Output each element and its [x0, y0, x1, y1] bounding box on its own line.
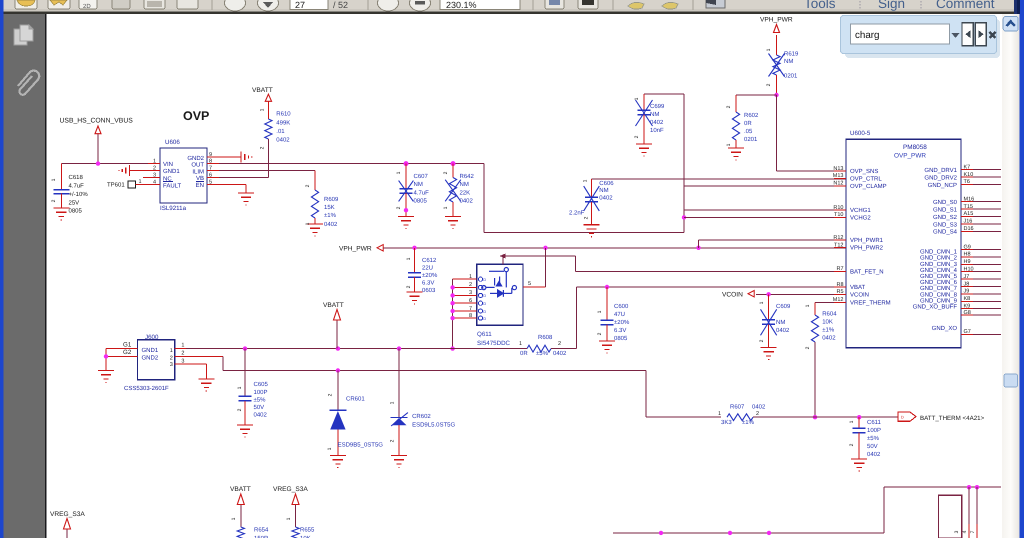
svg-text:1: 1: [443, 206, 449, 209]
svg-text:D: D: [483, 302, 486, 306]
svg-text:EN: EN: [196, 182, 204, 189]
svg-text:0402: 0402: [276, 137, 290, 144]
svg-text:0402: 0402: [650, 119, 664, 126]
svg-text:0402: 0402: [752, 404, 766, 411]
svg-text:BATT_THERM <4A21>: BATT_THERM <4A21>: [920, 415, 985, 422]
svg-text:1: 1: [519, 341, 522, 347]
svg-text:0402: 0402: [324, 221, 338, 228]
svg-text:VPH_PWR: VPH_PWR: [339, 246, 372, 253]
svg-text:0402: 0402: [254, 412, 268, 419]
svg-text:GND_CMN_2: GND_CMN_2: [920, 255, 958, 262]
svg-text:R642: R642: [460, 173, 475, 180]
svg-text:2: 2: [634, 135, 640, 138]
svg-text:VIN: VIN: [163, 161, 173, 168]
svg-text:R655: R655: [300, 527, 315, 534]
svg-text:2: 2: [597, 332, 603, 335]
svg-text:3: 3: [170, 362, 173, 368]
svg-text:2.2nF: 2.2nF: [569, 210, 585, 217]
svg-text:VPH_PWR: VPH_PWR: [760, 17, 793, 24]
svg-text:R609: R609: [324, 196, 339, 203]
svg-text:2: 2: [759, 339, 765, 342]
svg-text:1: 1: [286, 517, 292, 520]
svg-text:0402: 0402: [776, 327, 790, 334]
svg-text:1: 1: [759, 301, 765, 304]
svg-text:27: 27: [295, 0, 305, 10]
svg-text:230.1%: 230.1%: [446, 0, 477, 10]
svg-text:C609: C609: [776, 303, 791, 310]
svg-text:NM: NM: [460, 181, 469, 188]
svg-text:4.7uF: 4.7uF: [414, 189, 430, 196]
svg-text:C605: C605: [254, 381, 269, 388]
svg-text:GND_S4: GND_S4: [933, 229, 958, 236]
svg-text:2: 2: [558, 341, 561, 347]
svg-text:±20%: ±20%: [614, 319, 630, 326]
svg-text:Sign: Sign: [878, 0, 905, 11]
svg-text:G1: G1: [123, 342, 132, 349]
svg-text:GND_S3: GND_S3: [933, 221, 958, 228]
svg-text:0603: 0603: [422, 287, 436, 294]
svg-text:±1%: ±1%: [822, 327, 835, 334]
svg-text:R608: R608: [538, 334, 553, 341]
svg-text:R619: R619: [784, 51, 799, 58]
svg-text:0805: 0805: [414, 198, 428, 205]
svg-text:0805: 0805: [69, 208, 83, 215]
svg-text:1: 1: [849, 420, 855, 423]
svg-text:0201: 0201: [784, 73, 798, 80]
svg-text:±5%: ±5%: [254, 397, 267, 404]
svg-text:NM: NM: [414, 181, 423, 188]
svg-text:2: 2: [181, 350, 184, 356]
svg-text:ESD9B5_0ST5G: ESD9B5_0ST5G: [338, 442, 384, 449]
svg-text:2: 2: [726, 105, 732, 108]
svg-text:0201: 0201: [744, 136, 758, 143]
svg-text:GND1: GND1: [163, 168, 180, 175]
svg-text:GND2: GND2: [187, 155, 204, 162]
svg-text:GND_CMN_3: GND_CMN_3: [920, 261, 958, 268]
svg-text:C612: C612: [422, 257, 437, 264]
svg-text:±5%: ±5%: [867, 435, 880, 442]
svg-text:±20%: ±20%: [422, 272, 438, 279]
svg-text:OVP_SNS: OVP_SNS: [850, 168, 878, 175]
svg-text:OVP: OVP: [183, 109, 209, 123]
svg-text:BAT_FET_N: BAT_FET_N: [850, 269, 884, 276]
svg-text:3: 3: [954, 530, 960, 533]
svg-text:1: 1: [726, 143, 732, 146]
svg-text:1: 1: [634, 97, 640, 100]
svg-text:1: 1: [327, 447, 333, 450]
svg-text:2: 2: [170, 356, 173, 362]
svg-text:OVP_CLAMP: OVP_CLAMP: [850, 183, 887, 190]
svg-text:VCOIN: VCOIN: [722, 291, 743, 298]
svg-text:1: 1: [231, 517, 237, 520]
svg-text:OUT: OUT: [191, 162, 204, 169]
svg-text:22K: 22K: [460, 189, 471, 196]
svg-text:GND_S0: GND_S0: [933, 199, 958, 206]
svg-text:0805: 0805: [614, 335, 628, 342]
svg-text:R610: R610: [276, 111, 291, 118]
svg-text:3K3: 3K3: [721, 419, 732, 426]
svg-text:VBATT: VBATT: [323, 302, 344, 309]
svg-text:2: 2: [390, 439, 396, 442]
svg-text:VREF_THERM: VREF_THERM: [850, 300, 891, 307]
svg-text:SI5475DDC: SI5475DDC: [477, 340, 511, 347]
svg-text:VPH_PWR2: VPH_PWR2: [850, 245, 884, 252]
svg-text:R654: R654: [254, 527, 269, 534]
svg-text:2: 2: [396, 206, 402, 209]
svg-text:.05: .05: [744, 128, 753, 135]
svg-text:GND_S1: GND_S1: [933, 206, 958, 213]
svg-text:C607: C607: [414, 173, 429, 180]
svg-text:G8: G8: [964, 310, 971, 316]
svg-text:GND1: GND1: [142, 347, 159, 354]
svg-text:±1%: ±1%: [324, 212, 337, 219]
svg-text:D: D: [901, 416, 904, 420]
svg-text:D: D: [483, 310, 486, 314]
svg-text:VCOIN: VCOIN: [850, 292, 869, 299]
svg-text:GND_CMN_8: GND_CMN_8: [920, 291, 958, 298]
svg-text:OVP_CTRL: OVP_CTRL: [850, 176, 882, 183]
svg-text:15K: 15K: [324, 204, 335, 211]
svg-text:10nF: 10nF: [650, 127, 664, 134]
svg-text:CSS5303-2601F: CSS5303-2601F: [124, 385, 169, 392]
svg-text:GND_DRV1: GND_DRV1: [924, 167, 957, 174]
svg-text:1: 1: [406, 257, 412, 260]
svg-text:0402: 0402: [553, 350, 567, 357]
svg-text:GND_DRV2: GND_DRV2: [924, 174, 957, 181]
svg-text:VBAT: VBAT: [850, 284, 866, 291]
svg-text:50V: 50V: [867, 443, 878, 450]
svg-text:Q611: Q611: [477, 331, 492, 338]
svg-text:3: 3: [469, 290, 472, 296]
svg-text:OVP_PWR: OVP_PWR: [894, 153, 926, 160]
svg-text:25V: 25V: [69, 199, 80, 206]
svg-text:0402: 0402: [822, 335, 836, 342]
svg-text:2: 2: [443, 171, 449, 174]
svg-text:GND_CMN_5: GND_CMN_5: [920, 273, 958, 280]
svg-text:4.7uF: 4.7uF: [69, 183, 85, 190]
svg-text:5: 5: [528, 281, 531, 287]
svg-text:GND_NCP: GND_NCP: [928, 182, 957, 189]
svg-text:±5%: ±5%: [536, 350, 549, 357]
svg-text:6.3V: 6.3V: [422, 280, 434, 287]
svg-text:2: 2: [849, 443, 855, 446]
svg-text:VCHG1: VCHG1: [850, 207, 871, 214]
svg-text:1: 1: [390, 401, 396, 404]
svg-text:1: 1: [597, 310, 603, 313]
svg-text:1: 1: [170, 348, 173, 354]
svg-text:PM8058: PM8058: [903, 144, 927, 151]
svg-text:1: 1: [718, 411, 721, 417]
svg-text:50V: 50V: [254, 404, 265, 411]
svg-text:C606: C606: [599, 180, 614, 187]
svg-text:GND_XO_BUFF: GND_XO_BUFF: [913, 304, 958, 311]
svg-text:/ 52: / 52: [333, 0, 348, 10]
svg-text:R607: R607: [730, 404, 745, 411]
svg-text:VBATT: VBATT: [230, 486, 251, 493]
svg-text:2D: 2D: [83, 3, 91, 10]
svg-text:CR601: CR601: [346, 396, 365, 403]
svg-text:4: 4: [962, 530, 968, 533]
svg-text:NM: NM: [776, 319, 785, 326]
svg-text:C611: C611: [867, 419, 882, 426]
svg-text:VCHG2: VCHG2: [850, 215, 871, 222]
svg-text:charg: charg: [855, 30, 880, 41]
svg-text:2: 2: [237, 408, 243, 411]
svg-text:2: 2: [584, 216, 590, 219]
svg-text:2: 2: [469, 282, 472, 288]
svg-text:499K: 499K: [276, 120, 290, 127]
svg-text:U600-5: U600-5: [850, 130, 871, 137]
svg-text:1: 1: [582, 179, 588, 182]
svg-text:FAULT: FAULT: [163, 183, 182, 190]
svg-text:47U: 47U: [614, 311, 625, 318]
svg-text:.01: .01: [276, 128, 285, 135]
svg-text:0R: 0R: [520, 350, 528, 357]
svg-text:Comment: Comment: [936, 0, 995, 11]
svg-text:6.3V: 6.3V: [614, 327, 626, 334]
svg-text:+/-10%: +/-10%: [69, 191, 89, 198]
svg-text:VREG_S3A: VREG_S3A: [50, 511, 85, 518]
svg-text:J600: J600: [145, 334, 159, 341]
svg-text:8: 8: [469, 313, 472, 319]
svg-text:ILIM: ILIM: [192, 168, 204, 175]
svg-text:±1%: ±1%: [742, 419, 755, 426]
svg-text:0R: 0R: [744, 120, 752, 127]
svg-text:U606: U606: [165, 139, 180, 146]
svg-text:GND2: GND2: [142, 355, 159, 362]
svg-text:1: 1: [51, 178, 57, 181]
svg-text:NM: NM: [784, 58, 793, 65]
svg-text:2: 2: [766, 83, 772, 86]
svg-text:1: 1: [237, 386, 243, 389]
svg-text:2: 2: [51, 199, 57, 202]
svg-text:GND_CMN_4: GND_CMN_4: [920, 267, 958, 274]
svg-text:D: D: [483, 294, 486, 298]
svg-text:1: 1: [181, 343, 184, 349]
svg-text:VREG_S3A: VREG_S3A: [273, 486, 308, 493]
svg-text:2: 2: [805, 346, 811, 349]
svg-text:C618: C618: [69, 174, 84, 181]
svg-text:GND_S2: GND_S2: [933, 214, 958, 221]
svg-text:C600: C600: [614, 303, 629, 310]
svg-text:GND_CMN_9: GND_CMN_9: [920, 297, 958, 304]
svg-text:GND_CMN_6: GND_CMN_6: [920, 279, 958, 286]
svg-text:1: 1: [766, 48, 772, 51]
svg-text:D: D: [483, 317, 486, 321]
svg-text:7: 7: [970, 530, 976, 533]
svg-text:1: 1: [305, 222, 311, 225]
svg-text:1: 1: [805, 304, 811, 307]
svg-text:ISL9211a: ISL9211a: [160, 205, 187, 212]
svg-text:NM: NM: [599, 187, 608, 194]
svg-text:GND_CMN_1: GND_CMN_1: [920, 249, 958, 256]
svg-text:2: 2: [756, 411, 759, 417]
svg-text:USB_HS_CONN_VBUS: USB_HS_CONN_VBUS: [60, 118, 134, 125]
svg-text:100P: 100P: [254, 389, 268, 396]
svg-text:GND_CMN_7: GND_CMN_7: [920, 285, 958, 292]
svg-text:0402: 0402: [867, 451, 881, 458]
svg-text:Tools: Tools: [804, 0, 836, 11]
svg-text:VPH_PWR1: VPH_PWR1: [850, 237, 884, 244]
svg-text:0402: 0402: [460, 198, 474, 205]
svg-text:6: 6: [469, 298, 472, 304]
svg-text:0402: 0402: [599, 194, 613, 201]
svg-text:2: 2: [305, 184, 311, 187]
svg-text:2: 2: [328, 393, 334, 396]
svg-text:R604: R604: [822, 310, 837, 317]
svg-text:7: 7: [469, 306, 472, 312]
svg-text:2: 2: [259, 146, 265, 149]
svg-text:R602: R602: [744, 112, 759, 119]
svg-text:1: 1: [396, 171, 402, 174]
svg-text:NM: NM: [650, 111, 659, 118]
svg-text:1: 1: [139, 179, 142, 185]
svg-text:1: 1: [259, 108, 265, 111]
svg-text:TP601: TP601: [107, 181, 125, 188]
svg-text:C699: C699: [650, 103, 665, 110]
svg-text:100P: 100P: [867, 427, 881, 434]
svg-text:1: 1: [469, 274, 472, 280]
svg-text:GND_XO: GND_XO: [932, 325, 958, 332]
svg-text:G2: G2: [123, 349, 132, 356]
svg-text:10K: 10K: [822, 319, 833, 326]
svg-text:22U: 22U: [422, 265, 433, 272]
svg-text:VBATT: VBATT: [252, 87, 273, 94]
svg-text:D: D: [483, 278, 486, 282]
svg-text:CR602: CR602: [412, 413, 431, 420]
svg-text:2: 2: [406, 285, 412, 288]
svg-text:ESD9L5.0ST5G: ESD9L5.0ST5G: [412, 422, 455, 429]
